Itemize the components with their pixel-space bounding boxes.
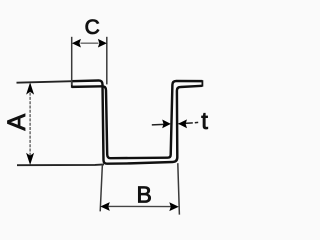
svg-text:t: t: [201, 108, 208, 135]
svg-text:A: A: [3, 114, 31, 131]
svg-text:B: B: [137, 181, 152, 207]
svg-text:C: C: [85, 16, 100, 39]
